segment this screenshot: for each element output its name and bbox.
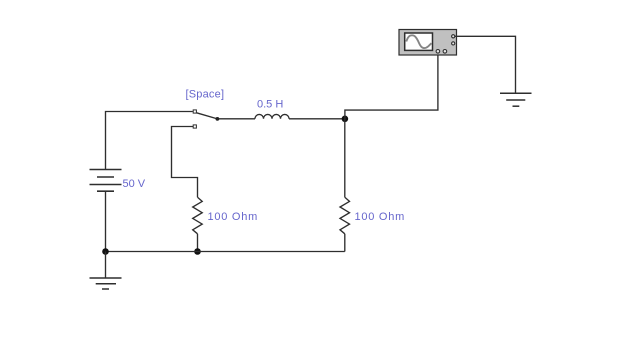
battery V1 plate long 2 bbox=[90, 184, 122, 186]
battery V1 plate short 1 bbox=[97, 176, 114, 178]
oscilloscope terminal bottom 2 bbox=[443, 50, 447, 54]
ground left line 1 bbox=[90, 277, 122, 279]
wire battery bottom to node C bbox=[105, 191, 107, 251]
bottom wire node C to R2 bottom bbox=[106, 251, 345, 253]
svg-text:[Space]: [Space] bbox=[186, 89, 225, 101]
ground right line 3 bbox=[513, 105, 520, 107]
wire bottom throw to resistor R1 top bbox=[172, 127, 198, 198]
wire battery top to switch top throw bbox=[106, 112, 193, 170]
svg-text:100 Ohm: 100 Ohm bbox=[355, 211, 406, 223]
battery V1 plate short 2 bbox=[97, 190, 114, 192]
svg-text:100 Ohm: 100 Ohm bbox=[208, 211, 259, 223]
wire inductor to node A bbox=[289, 118, 346, 120]
wire R1 bottom to node B bbox=[197, 234, 199, 252]
oscilloscope terminal bottom 1 bbox=[436, 50, 440, 54]
wire node A up to oscilloscope bottom terminal bbox=[345, 54, 438, 119]
svg-text:0.5 H: 0.5 H bbox=[257, 99, 283, 111]
inductor L1 bbox=[255, 114, 289, 118]
switch S1 blade bbox=[197, 113, 217, 119]
switch S1 pole dot bbox=[216, 117, 220, 121]
oscilloscope XSC1 body bbox=[399, 30, 457, 56]
oscilloscope terminal right 1 bbox=[452, 35, 455, 38]
svg-text:50 V: 50 V bbox=[123, 178, 146, 190]
ground left line 3 bbox=[102, 288, 109, 290]
wire switch pole to inductor L1 bbox=[219, 118, 255, 120]
wire R2 bottom to bottom wire bbox=[344, 234, 346, 252]
wire node C to left ground bbox=[105, 252, 107, 278]
ground left line 2 bbox=[96, 283, 116, 285]
switch S1 top throw contact bbox=[193, 110, 196, 113]
oscilloscope terminal right 2 bbox=[452, 42, 455, 45]
ground right line 1 bbox=[500, 92, 532, 94]
resistor R1 bbox=[193, 197, 203, 234]
ground right line 2 bbox=[506, 99, 525, 101]
battery V1 plate long top bbox=[90, 169, 122, 171]
wire oscilloscope right terminal to right ground bbox=[455, 36, 516, 93]
oscilloscope trace bbox=[406, 35, 431, 48]
wire node A down to resistor R2 top bbox=[344, 119, 346, 198]
resistor R2 bbox=[340, 197, 350, 234]
junction node C dot bbox=[102, 248, 109, 255]
oscilloscope screen bbox=[405, 33, 433, 50]
junction node A dot bbox=[342, 116, 349, 123]
switch S1 bottom throw contact bbox=[193, 125, 196, 128]
junction node B dot bbox=[194, 248, 201, 255]
